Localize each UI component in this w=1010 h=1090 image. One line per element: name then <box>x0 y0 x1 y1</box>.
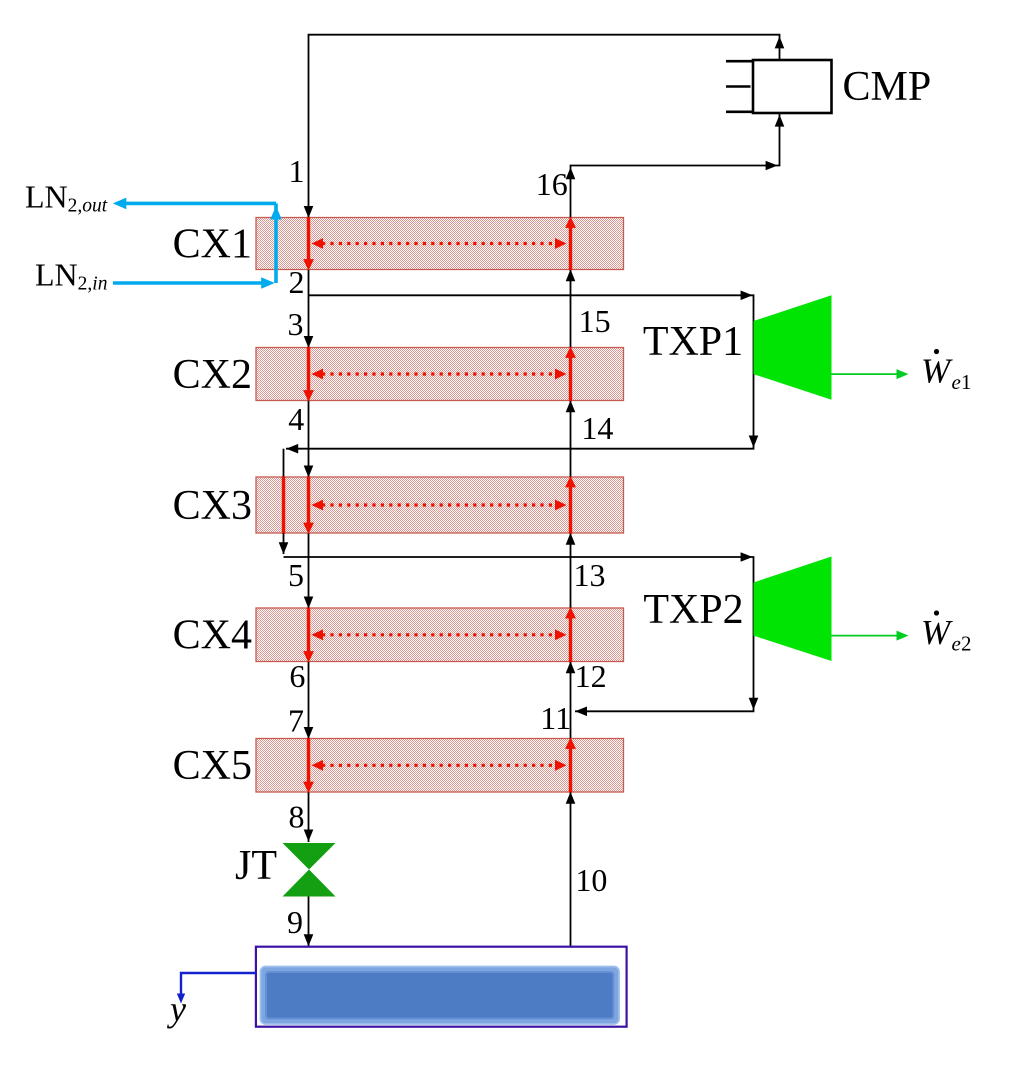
turbine TXP1 <box>754 295 832 399</box>
svg-text:15: 15 <box>579 303 611 339</box>
heat exchanger CX1 body <box>256 218 624 270</box>
svg-text:6: 6 <box>289 658 305 694</box>
arrow down into CX2 top <box>304 336 314 348</box>
svg-text:TXP2: TXP2 <box>643 587 743 633</box>
liquid level y indicator <box>177 973 257 1004</box>
label W-dot e2 <box>921 610 972 655</box>
red dotted heat-transfer arrow CX2 <box>322 372 556 375</box>
red hot stream through CX3 <box>307 477 310 525</box>
heat exchanger CX4 body <box>256 608 624 662</box>
arrow up at state 16 <box>566 167 576 179</box>
red hot stream through CX5 <box>307 738 310 783</box>
svg-text:2: 2 <box>289 264 305 300</box>
svg-text:11: 11 <box>540 700 571 736</box>
arrow up into CX5 bottom <box>566 792 576 804</box>
arrow left at TXP2 outlet joining return line (state 11) <box>575 707 587 717</box>
arrow down into reservoir <box>304 934 314 946</box>
red dotted heat-transfer arrow CX1 <box>322 242 556 245</box>
arrow down into CX5 top <box>304 727 314 739</box>
wire: CX5 to JT valve (state 8) <box>308 792 310 842</box>
red dotted heat-transfer arrow CX3 <box>322 503 556 506</box>
svg-text:10: 10 <box>575 862 607 898</box>
svg-text:CMP: CMP <box>843 64 932 110</box>
arrow down into CX3 top <box>304 466 314 478</box>
arrow down at bypass bottom <box>279 542 289 554</box>
svg-text:12: 12 <box>575 658 607 694</box>
red hot stream through CX2 <box>307 347 310 392</box>
heat exchanger CX2 body <box>256 348 624 401</box>
svg-text:1: 1 <box>289 153 305 189</box>
heat exchanger CX3 body <box>256 477 624 533</box>
label W-dot e1 <box>921 349 972 394</box>
arrow up into CX3 bottom <box>566 533 576 545</box>
wire: hot stream CX3 to CX4 (states 5-6) <box>308 533 310 608</box>
svg-text:LN2,in: LN2,in <box>35 257 107 295</box>
wire: compressor discharge top line (state 1) <box>309 35 780 218</box>
svg-text:W: W <box>921 613 953 652</box>
svg-text:CX3: CX3 <box>173 483 252 529</box>
wire: hot stream CX2 to CX3 (states 4-5) <box>308 401 310 478</box>
red cold stream through CX5 <box>569 747 572 793</box>
svg-text:8: 8 <box>289 798 305 834</box>
wire: return stream CX4 to CX3 (state 13) <box>570 533 572 608</box>
svg-text:e: e <box>952 632 961 656</box>
wire: return stream CX1 to compressor suction (state 16) <box>571 113 780 218</box>
svg-text:13: 13 <box>574 557 606 593</box>
wire: JT valve to reservoir (state 9) <box>308 897 310 947</box>
arrow right into TXP1 feed corner <box>741 291 753 301</box>
turbine TXP2 <box>754 557 832 662</box>
work arrow We1 <box>832 373 899 375</box>
arrow right into TXP2 feed corner <box>741 552 753 562</box>
svg-text:CX1: CX1 <box>173 221 252 267</box>
arrow up into CMP bottom <box>775 115 785 127</box>
svg-text:W: W <box>921 352 953 391</box>
svg-text:5: 5 <box>288 557 304 593</box>
red cold stream through CX3 <box>569 486 572 534</box>
arrow down at TXP2 exit <box>749 698 759 710</box>
svg-text:y: y <box>167 989 186 1029</box>
svg-text:7: 7 <box>288 703 304 739</box>
wire: return stream reservoir to CX5 (state 10) <box>570 792 572 947</box>
wire: LN2 vertical through CX1 <box>274 203 278 283</box>
wire: hot stream CX4 to CX5 (states 6-7) <box>308 662 310 739</box>
wire: hot stream CX1 to CX2 (states 2-3) <box>308 270 310 348</box>
LN2 loop through CX1 (cyan) <box>113 198 282 289</box>
wire: LN2 out line <box>126 202 276 206</box>
wire: TXP1 inlet line from state 2 <box>286 295 754 448</box>
arrow down into JT valve <box>304 830 314 842</box>
arrow down into CX1 top (state 1) <box>304 206 314 218</box>
red dotted heat-transfer arrow CX4 <box>322 633 556 636</box>
svg-text:CX4: CX4 <box>173 613 252 659</box>
arrow left at TXP1 outlet toward CX3 bypass <box>286 444 298 454</box>
wire: return stream CX5 to CX4 (states 11-12) <box>570 662 572 739</box>
arrow up into CX1 bottom <box>566 269 576 281</box>
work arrow We2 <box>832 635 899 637</box>
arrow up into top line from CMP <box>775 36 785 48</box>
wire: LN2 in line <box>113 281 263 285</box>
red dotted heat-transfer arrow CX5 <box>322 764 556 767</box>
red bypass segment inside CX3 <box>282 476 285 533</box>
svg-text:JT: JT <box>235 843 277 889</box>
svg-text:LN2,out: LN2,out <box>25 179 108 217</box>
svg-text:4: 4 <box>288 401 304 437</box>
wire: return stream CX3 to CX2 (state 14) <box>570 401 572 478</box>
red hot stream through CX4 <box>307 608 310 654</box>
arrow up into CX4 bottom <box>566 661 576 673</box>
red cold stream through CX2 <box>569 356 572 401</box>
heat exchanger CX5 body <box>256 739 624 793</box>
svg-text:e: e <box>952 370 961 394</box>
red hot stream through CX1 <box>307 217 310 261</box>
red cold stream through CX1 <box>569 226 572 270</box>
svg-text:2: 2 <box>961 632 972 656</box>
svg-text:9: 9 <box>287 904 303 940</box>
arrow down into CX4 top <box>304 597 314 609</box>
svg-text:3: 3 <box>288 306 304 342</box>
svg-text:TXP1: TXP1 <box>643 319 743 365</box>
compressor CMP body <box>726 60 832 113</box>
svg-text:14: 14 <box>581 410 613 446</box>
reservoir (phase separator) <box>256 947 627 1027</box>
svg-text:CX2: CX2 <box>173 352 252 398</box>
wire: bypass below CX3 <box>283 533 285 554</box>
svg-text:1: 1 <box>961 370 972 394</box>
arrow down at TXP1 exit <box>749 436 759 448</box>
JT valve <box>283 843 336 897</box>
arrow right at suction corner <box>766 161 778 171</box>
svg-text:16: 16 <box>536 166 568 202</box>
wire: TXP1 outlet down through CX3 (bypass) <box>283 449 285 477</box>
arrow up into CX2 bottom <box>566 400 576 412</box>
wire: return stream CX2 to CX1 (state 15) <box>570 270 572 348</box>
svg-text:CX5: CX5 <box>173 743 252 789</box>
wire: TXP2 feed line <box>284 557 754 711</box>
red cold stream through CX4 <box>569 617 572 662</box>
